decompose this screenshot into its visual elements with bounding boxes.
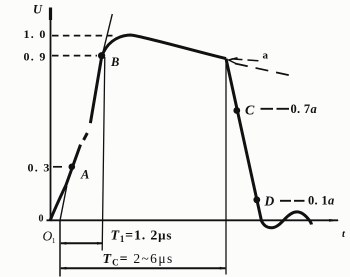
wire: rising front upper part to B: [90, 56, 101, 123]
svg-text:0. 3: 0. 3: [28, 161, 51, 175]
wire: rising front of impulse wave (thick, lower part through A): [50, 145, 81, 221]
arrowhead at crest corner for tangent a: [229, 58, 238, 64]
leader dashes for C: [261, 108, 290, 110]
svg-text:0. 7a: 0. 7a: [291, 102, 318, 116]
svg-text:O1: O1: [43, 229, 56, 246]
wavefront tangent line above B (thin straight): [102, 14, 113, 57]
vertical guide line at start of tail: [225, 59, 227, 275]
dashed tangent line a on tail: [235, 64, 297, 77]
dashed level line at 0.9: [52, 55, 97, 57]
point B (90% of front): [98, 52, 105, 59]
dashed level line at 1.0: [52, 35, 113, 37]
svg-text:A: A: [80, 168, 89, 182]
point A (30% of front): [69, 164, 76, 171]
dash at 0.3 level: [53, 166, 62, 168]
leader dashes for D: [280, 200, 305, 202]
svg-text:U: U: [33, 3, 43, 17]
svg-text:0: 0: [39, 214, 44, 225]
wire: wave crest (rounded top): [102, 35, 226, 59]
svg-text:0. 9: 0. 9: [24, 50, 47, 64]
svg-text:a: a: [263, 50, 269, 62]
svg-text:T1=1. 2μs: T1=1. 2μs: [111, 228, 173, 245]
tangent extension below axis (dimension extension at virtual origin): [59, 221, 61, 277]
vertical guide line through B: [102, 57, 105, 251]
t axis (horizontal time axis): [47, 219, 340, 222]
wavefront tangent line at foot (thin straight to virtual origin): [60, 186, 67, 221]
wire: falling tail of wave: [226, 59, 312, 228]
dimension line T1 (front time): [60, 242, 103, 245]
svg-text:t: t: [342, 229, 346, 240]
svg-text:B: B: [110, 55, 119, 69]
svg-text:D: D: [264, 194, 275, 209]
U axis (vertical voltage axis): [50, 8, 52, 222]
dashed short continuation at crest: [232, 59, 261, 61]
svg-text:0. 1a: 0. 1a: [308, 194, 335, 208]
point C (70% of tail): [233, 107, 240, 114]
svg-text:1. 0: 1. 0: [24, 27, 47, 41]
svg-text:C: C: [245, 104, 255, 119]
svg-text:TC= 2~6μs: TC= 2~6μs: [103, 251, 174, 268]
wire: dash of broken rising front: [84, 133, 88, 140]
point D (10% of tail): [253, 196, 260, 203]
dimension line TC (time to half/crest duration): [60, 267, 226, 270]
